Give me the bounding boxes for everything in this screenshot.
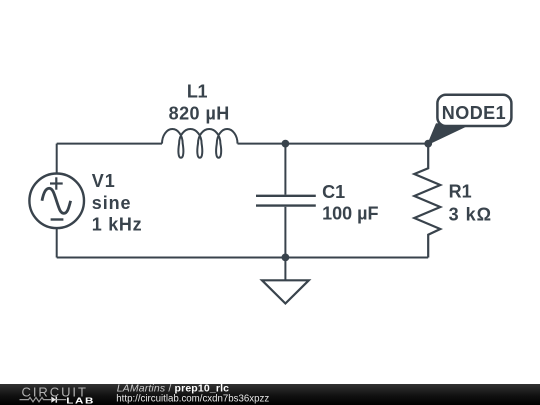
svg-text:820 µH: 820 µH <box>169 104 230 124</box>
svg-text:NODE1: NODE1 <box>442 103 506 123</box>
svg-text:LAB: LAB <box>66 397 95 405</box>
svg-text:R1: R1 <box>449 181 472 201</box>
svg-text:100 µF: 100 µF <box>322 203 378 223</box>
svg-text:http://circuitlab.com/cxdn7bs3: http://circuitlab.com/cxdn7bs36xpzz <box>116 393 269 404</box>
svg-text:3 kΩ: 3 kΩ <box>449 204 492 224</box>
svg-text:V1: V1 <box>92 171 116 191</box>
svg-text:sine: sine <box>92 193 132 213</box>
svg-text:L1: L1 <box>187 82 208 102</box>
svg-text:C1: C1 <box>322 182 345 202</box>
svg-text:1 kHz: 1 kHz <box>92 214 143 234</box>
